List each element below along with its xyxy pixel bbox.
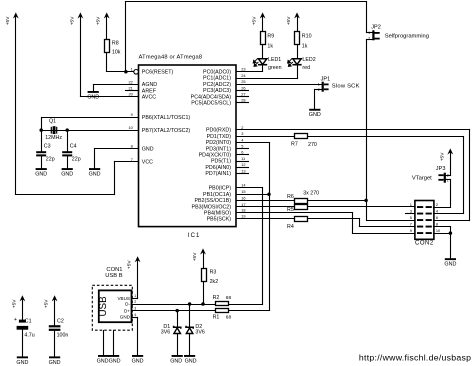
svg-text:17: 17 xyxy=(241,202,245,207)
svg-text:red: red xyxy=(302,65,310,71)
svg-text:AREF: AREF xyxy=(142,88,157,94)
svg-text:AGND: AGND xyxy=(142,82,157,88)
svg-text:3: 3 xyxy=(241,131,243,136)
svg-text:1: 1 xyxy=(447,178,449,182)
svg-text:12: 12 xyxy=(241,162,245,167)
svg-text:5: 5 xyxy=(410,215,412,220)
svg-text:+: + xyxy=(14,317,17,323)
svg-text:Selfprogramming: Selfprogramming xyxy=(385,33,429,39)
svg-text:R9: R9 xyxy=(267,33,274,39)
svg-text:3V6: 3V6 xyxy=(161,329,170,335)
svg-text:PB7(XTAL2/TOSC2): PB7(XTAL2/TOSC2) xyxy=(142,128,191,134)
svg-text:100n: 100n xyxy=(57,332,69,338)
svg-text:PC5(ADC5/SCL): PC5(ADC5/SCL) xyxy=(191,101,231,107)
svg-text:PB0(ICP): PB0(ICP) xyxy=(209,186,232,192)
svg-text:PB2(SS/OC1B): PB2(SS/OC1B) xyxy=(194,198,231,204)
svg-text:PD5(T1): PD5(T1) xyxy=(211,159,231,165)
svg-text:JP1: JP1 xyxy=(321,77,331,83)
svg-text:9: 9 xyxy=(410,228,412,233)
svg-text:USB: USB xyxy=(98,296,109,317)
svg-text:PB4(MISO): PB4(MISO) xyxy=(204,210,231,216)
svg-text:13: 13 xyxy=(241,168,245,173)
svg-text:8: 8 xyxy=(131,144,133,149)
svg-text:4.7u: 4.7u xyxy=(24,332,34,338)
svg-text:JP3: JP3 xyxy=(436,166,446,172)
svg-text:Slow SCK: Slow SCK xyxy=(332,84,360,90)
svg-text:9: 9 xyxy=(131,112,133,117)
svg-text:6: 6 xyxy=(436,215,438,220)
svg-text:GND: GND xyxy=(309,112,321,118)
svg-text:GND: GND xyxy=(61,172,73,178)
svg-text:22: 22 xyxy=(128,79,132,84)
svg-text:R3: R3 xyxy=(210,269,217,275)
svg-text:PD0(RXD): PD0(RXD) xyxy=(206,128,231,134)
svg-text:PC4(ADC4/SDA): PC4(ADC4/SDA) xyxy=(191,94,232,100)
svg-text:+5V: +5V xyxy=(127,260,133,269)
svg-text:IC1: IC1 xyxy=(188,233,201,239)
svg-text:GND: GND xyxy=(109,358,121,364)
svg-text:GND: GND xyxy=(444,262,456,268)
svg-text:8: 8 xyxy=(436,222,438,227)
svg-text:26: 26 xyxy=(241,85,245,90)
svg-text:+5V: +5V xyxy=(96,16,102,25)
svg-text:1: 1 xyxy=(368,31,370,35)
svg-text:R6: R6 xyxy=(287,194,294,200)
svg-text:2: 2 xyxy=(241,125,243,130)
svg-text:green: green xyxy=(268,65,282,71)
svg-text:LED2: LED2 xyxy=(302,57,315,63)
svg-text:LED1: LED1 xyxy=(268,57,281,63)
svg-text:GND: GND xyxy=(185,358,197,364)
svg-text:15: 15 xyxy=(241,189,245,194)
svg-text:PC2(ADC2): PC2(ADC2) xyxy=(203,82,231,88)
svg-text:D+: D+ xyxy=(124,308,130,313)
svg-text:1: 1 xyxy=(410,202,412,207)
svg-text:12MHz: 12MHz xyxy=(45,135,62,141)
svg-text:2: 2 xyxy=(436,202,438,207)
svg-text:R2: R2 xyxy=(213,295,220,301)
svg-text:3x 270: 3x 270 xyxy=(303,190,319,196)
svg-text:R10: R10 xyxy=(302,33,312,39)
svg-text:+5V: +5V xyxy=(192,252,198,261)
svg-text:11: 11 xyxy=(241,156,245,161)
svg-text:2: 2 xyxy=(318,88,320,92)
svg-text:D-: D- xyxy=(125,302,130,307)
svg-text:VBUS: VBUS xyxy=(117,296,130,301)
svg-text:PD6(AIN0): PD6(AIN0) xyxy=(205,165,231,171)
svg-text:68: 68 xyxy=(226,314,232,320)
svg-text:19: 19 xyxy=(241,214,245,219)
svg-text:+5V: +5V xyxy=(5,16,11,25)
svg-text:R1: R1 xyxy=(213,314,220,320)
svg-text:GND: GND xyxy=(87,94,99,100)
svg-text:PC1(ADC1): PC1(ADC1) xyxy=(203,76,231,82)
svg-text:PD4(XCK/T0): PD4(XCK/T0) xyxy=(199,153,232,159)
svg-text:PC0(ADC0): PC0(ADC0) xyxy=(203,70,231,76)
svg-text:+5V: +5V xyxy=(252,16,258,25)
svg-text:+5V: +5V xyxy=(44,299,50,308)
svg-text:25: 25 xyxy=(241,79,245,84)
svg-text:4: 4 xyxy=(134,313,136,317)
svg-text:GND: GND xyxy=(132,358,144,364)
svg-text:VTarget: VTarget xyxy=(412,175,432,181)
svg-text:27: 27 xyxy=(241,92,245,97)
svg-text:28: 28 xyxy=(241,98,245,103)
svg-text:PC3(ADC3): PC3(ADC3) xyxy=(203,88,231,94)
svg-text:C4: C4 xyxy=(70,144,77,150)
svg-text:GND: GND xyxy=(16,360,28,366)
svg-text:22p: 22p xyxy=(46,157,55,163)
svg-text:10k: 10k xyxy=(112,50,121,56)
svg-text:C1: C1 xyxy=(25,318,32,324)
svg-text:Q1: Q1 xyxy=(49,119,56,125)
svg-text:2k2: 2k2 xyxy=(210,279,219,285)
svg-text:2: 2 xyxy=(447,173,449,177)
svg-text:PD3(INT1): PD3(INT1) xyxy=(206,146,232,152)
svg-text:+5V: +5V xyxy=(11,299,17,308)
svg-text:+5V: +5V xyxy=(439,152,445,161)
svg-text:PD7(AIN1): PD7(AIN1) xyxy=(205,171,231,177)
svg-text:R5: R5 xyxy=(287,207,294,213)
svg-text:GND: GND xyxy=(35,172,47,178)
svg-text:CON2: CON2 xyxy=(415,241,434,247)
svg-text:PB5(SCK): PB5(SCK) xyxy=(207,216,232,222)
svg-text:AVCC: AVCC xyxy=(142,95,156,101)
svg-text:GND: GND xyxy=(97,358,109,364)
svg-text:C3: C3 xyxy=(44,144,51,150)
svg-text:7: 7 xyxy=(131,157,133,162)
svg-text:7: 7 xyxy=(410,222,412,227)
svg-text:PB1(OC1A): PB1(OC1A) xyxy=(203,192,231,198)
svg-text:18: 18 xyxy=(241,208,245,213)
svg-text:GND: GND xyxy=(49,360,61,366)
svg-text:3V6: 3V6 xyxy=(195,329,204,335)
svg-text:16: 16 xyxy=(241,195,245,200)
svg-text:PD1(TXD): PD1(TXD) xyxy=(207,134,232,140)
svg-text:21: 21 xyxy=(128,86,132,91)
svg-text:GND: GND xyxy=(120,315,131,320)
svg-text:VCC: VCC xyxy=(142,160,153,166)
svg-text:PB6(XTAL1/TOSC1): PB6(XTAL1/TOSC1) xyxy=(142,115,191,121)
svg-text:270: 270 xyxy=(308,142,317,148)
svg-text:R7: R7 xyxy=(291,141,298,147)
svg-text:C2: C2 xyxy=(57,318,64,324)
svg-text:R8: R8 xyxy=(112,40,119,46)
svg-text:23: 23 xyxy=(241,67,245,72)
svg-text:R4: R4 xyxy=(287,224,294,230)
svg-text:2: 2 xyxy=(134,300,136,304)
svg-text:GND: GND xyxy=(170,358,182,364)
svg-text:68: 68 xyxy=(226,295,232,301)
svg-text:JP2: JP2 xyxy=(371,25,381,31)
svg-text:ATmega48 or ATmega8: ATmega48 or ATmega8 xyxy=(139,54,203,60)
svg-text:USB B: USB B xyxy=(105,273,123,279)
svg-text:1: 1 xyxy=(318,83,320,87)
svg-text:http://www.fischl.de/usbasp: http://www.fischl.de/usbasp xyxy=(359,352,471,362)
svg-text:GND: GND xyxy=(89,172,101,178)
svg-text:3: 3 xyxy=(134,306,136,310)
svg-text:6: 6 xyxy=(241,150,243,155)
svg-text:1k: 1k xyxy=(302,44,308,50)
svg-text:1: 1 xyxy=(131,67,133,72)
svg-text:1: 1 xyxy=(134,294,136,298)
svg-text:PD2(INT0): PD2(INT0) xyxy=(206,140,232,146)
svg-text:3: 3 xyxy=(410,209,412,214)
svg-text:2: 2 xyxy=(368,37,370,41)
svg-text:GND: GND xyxy=(142,146,154,152)
svg-text:+5V: +5V xyxy=(286,16,292,25)
svg-text:PC6(RESET): PC6(RESET) xyxy=(142,70,174,76)
svg-text:5: 5 xyxy=(241,144,243,149)
svg-text:1k: 1k xyxy=(267,44,273,50)
svg-text:22p: 22p xyxy=(72,157,81,163)
svg-text:+5V: +5V xyxy=(69,16,75,25)
